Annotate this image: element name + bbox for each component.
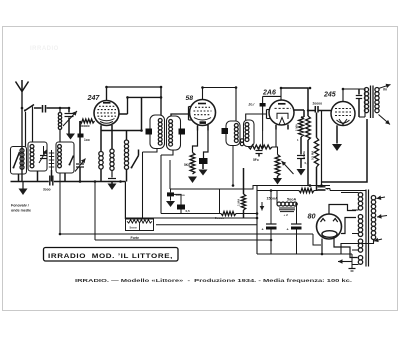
wire (bus 2) <box>156 224 257 226</box>
coil L1 (antenna coil, band switch) <box>11 147 27 175</box>
svg-text:2o./: 2o./ <box>248 103 256 107</box>
speaker lead (top) <box>379 85 391 89</box>
mains plug arrow <box>338 261 352 263</box>
coil L6 (osc grid) <box>111 131 113 149</box>
svg-text:5Ko: 5Ko <box>184 163 190 167</box>
wire (plate 2A6) <box>281 88 308 116</box>
capacitor C6 (series 3000) <box>49 176 51 186</box>
speaker lead (bottom) <box>379 115 391 125</box>
tube V5 80 (rectifier) <box>317 214 342 239</box>
variable capacitor C4 <box>43 146 45 155</box>
potentiometer R4 (volume) <box>275 130 277 148</box>
svg-text:247: 247 <box>87 94 101 102</box>
svg-text:Fonovalv /: Fonovalv / <box>11 204 29 208</box>
wire (screen 247) <box>119 113 128 115</box>
IF transformer T2 primary <box>226 121 240 146</box>
capacitor C10 (cathode bypass) <box>204 131 209 159</box>
wire (heater bus 1) <box>60 233 313 235</box>
capacitor C1 (antenna series) <box>42 105 44 113</box>
resistor R5 <box>299 117 304 137</box>
tube V3 2A6 <box>269 100 294 125</box>
tube V1 247 <box>94 101 119 126</box>
capacitor C17 (tone) <box>358 89 360 95</box>
wire (decoupling node) <box>169 160 171 189</box>
capacitor C13 (top-cap coupling) <box>262 107 264 132</box>
IF transformer T1 secondary <box>167 116 181 150</box>
capacitor C15 <box>297 155 305 157</box>
wire (80 plate 2) <box>341 218 356 234</box>
power transformer T5 taps <box>341 192 359 194</box>
wire <box>160 155 162 214</box>
primary lead (top) <box>377 197 386 199</box>
wire (AF coupling) <box>307 109 309 111</box>
wire (riser) <box>219 189 221 214</box>
wire (supply bottom) <box>257 253 352 255</box>
capacitor C8 (IF1 trim) <box>146 129 153 135</box>
ground (osc) <box>108 184 117 191</box>
coil L4 (oscillator tank) <box>56 142 74 173</box>
wire (80 filament) <box>321 239 323 255</box>
power transformer T5 core <box>365 190 367 267</box>
svg-text:onde medie: onde medie <box>11 209 31 213</box>
svg-text:2oooo: 2oooo <box>313 102 323 106</box>
svg-text:IRRADIO: IRRADIO <box>30 46 59 52</box>
tube V4 245 <box>331 102 355 126</box>
potentiometer R9 (Forte) <box>126 219 154 231</box>
resistor R3 (diode load) <box>248 146 250 149</box>
wire (grid bias) <box>321 111 323 187</box>
svg-text:1 MA: 1 MA <box>237 198 241 206</box>
resistor R11 (bleeder) <box>299 188 314 192</box>
svg-text:+ 2: + 2 <box>284 213 289 217</box>
wire (B+ drop to supply) <box>322 119 368 182</box>
wire (plate 58 to IF2) <box>203 88 237 122</box>
coil L8 (antenna coupling) <box>59 108 61 113</box>
svg-text:IRRADIO MOD. ’IL LITTORE,: IRRADIO MOD. ’IL LITTORE, <box>48 253 173 260</box>
resistor R6 (plate load 2A6) <box>306 116 311 140</box>
wire <box>276 191 278 205</box>
wire <box>54 181 126 183</box>
svg-text:IRRADIO. — Modello «Littore»: IRRADIO. — Modello «Littore» - Produzion… <box>75 278 352 283</box>
ground (R2) <box>188 177 197 184</box>
wire (supply left rail) <box>256 186 258 255</box>
IF transformer T1 primary <box>150 115 165 149</box>
coil L5 (osc feedback) <box>100 131 102 152</box>
capacitor C19 (electrolytic) <box>266 223 277 225</box>
wire (to 2A6 top cap) <box>263 95 281 97</box>
wire (switch to L2) <box>32 107 34 143</box>
capacitor C21 <box>170 189 172 192</box>
resistor R1 (grid leak 247) <box>80 119 95 123</box>
svg-text:0,5 MA: 0,5 MA <box>311 150 315 160</box>
wire (B+ rail) <box>257 185 330 187</box>
capacitor C9 (IF1 trim) <box>179 129 186 135</box>
variable capacitor C2 <box>68 108 70 113</box>
output transformer T3 <box>364 88 368 92</box>
svg-text:6n: 6n <box>383 88 387 92</box>
capacitor C14 <box>258 147 260 150</box>
wire <box>262 131 264 147</box>
ground (input bus) <box>22 182 24 189</box>
wire <box>79 121 81 137</box>
switch S1 (antenna) <box>24 109 26 111</box>
wire (cathode link) <box>101 130 142 132</box>
svg-text:2A6: 2A6 <box>262 89 276 96</box>
wire (80 plate) <box>329 205 356 215</box>
wire <box>326 188 331 190</box>
switch S2 (osc) <box>131 167 133 169</box>
padder coil L3 <box>51 150 53 170</box>
coil L2 (tuned circuit) <box>28 142 47 171</box>
capacitor C20 (electrolytic) <box>291 223 302 225</box>
choke T4 (filter) <box>277 202 281 206</box>
wire (riser) <box>124 182 126 220</box>
resistor R10 <box>243 168 245 194</box>
resistor R7 (grid leak 245) <box>316 113 318 138</box>
coil tail (IF2 secondary) <box>240 139 243 142</box>
svg-text:5Fo: 5Fo <box>253 158 259 162</box>
svg-text:+: + <box>262 228 264 232</box>
power transformer T5 secondaries <box>358 193 362 197</box>
svg-text:+: + <box>287 228 289 232</box>
svg-text:1oo: 1oo <box>84 138 90 142</box>
title box <box>44 248 179 262</box>
junction dots <box>21 107 24 110</box>
wire (2A6 diode plate) <box>294 109 304 111</box>
wire (coil bottom bus) <box>11 181 49 183</box>
svg-text:245: 245 <box>323 92 336 99</box>
wire <box>296 204 298 224</box>
capacitor C3 <box>78 134 84 138</box>
wire (bus) <box>126 217 258 219</box>
wire (switch to L1) <box>25 112 27 147</box>
antenna <box>16 82 23 92</box>
ground (C15) <box>297 169 306 176</box>
svg-text:5oooo: 5oooo <box>80 124 90 128</box>
capacitor C11 (IF2 trim) <box>222 128 229 134</box>
capacitor C22 <box>174 194 181 204</box>
wire <box>47 107 70 109</box>
wire <box>161 150 173 155</box>
svg-text:5ooA: 5ooA <box>287 198 297 202</box>
mains tap arrow <box>377 216 387 218</box>
svg-text:80: 80 <box>308 212 316 221</box>
ground (C21) <box>166 201 175 207</box>
switch S3 (band) <box>69 164 71 166</box>
svg-text:15ooA: 15ooA <box>267 197 279 201</box>
capacitor C7 (osc) <box>111 170 113 178</box>
svg-text:5oooo: 5oooo <box>176 193 185 197</box>
resistor R2 (cathode 58) <box>193 131 198 153</box>
wire (IF2 sec to 2A6 grid) <box>246 114 267 120</box>
resistor R8 <box>221 212 236 216</box>
svg-text:3ooo: 3ooo <box>43 188 51 192</box>
wire (plate 247 to IF1) <box>107 87 162 116</box>
wire <box>142 152 144 218</box>
variable capacitor C5 <box>76 163 84 165</box>
wire <box>34 107 42 109</box>
svg-text:58: 58 <box>186 95 194 102</box>
IF transformer T2 secondary <box>244 120 255 147</box>
wire (plate 245 to output transformer) <box>343 89 365 117</box>
ground (C10) <box>199 170 208 176</box>
tube V2 58 <box>190 100 216 126</box>
ground (cathode 245) <box>336 125 338 143</box>
coil L7 (osc padder) <box>126 131 128 141</box>
svg-text:0,5: 0,5 <box>186 209 191 213</box>
svg-text:1 MA: 1 MA <box>295 123 299 131</box>
svg-text:5ooo: 5ooo <box>130 226 137 230</box>
capacitor C18 <box>318 186 326 188</box>
wire <box>232 146 234 186</box>
wire <box>79 121 81 134</box>
wire (IF1 sec to 58 grid) <box>171 114 189 116</box>
ground (R4) <box>277 176 279 178</box>
wire (heater bus 2) <box>95 239 271 241</box>
wire (supply top) <box>257 190 299 192</box>
svg-text:2 MA: 2 MA <box>302 150 306 158</box>
wire (bus AVC) <box>161 213 221 215</box>
grid bracket 2A6 <box>266 110 268 119</box>
capacitor C16 (AF coupling) <box>314 106 316 113</box>
wire <box>143 149 158 153</box>
ground (below C2) <box>66 134 75 140</box>
power transformer T5 primary <box>371 196 375 200</box>
wire (arrow at supply) <box>261 202 263 211</box>
primary lead (bottom) <box>341 240 374 255</box>
